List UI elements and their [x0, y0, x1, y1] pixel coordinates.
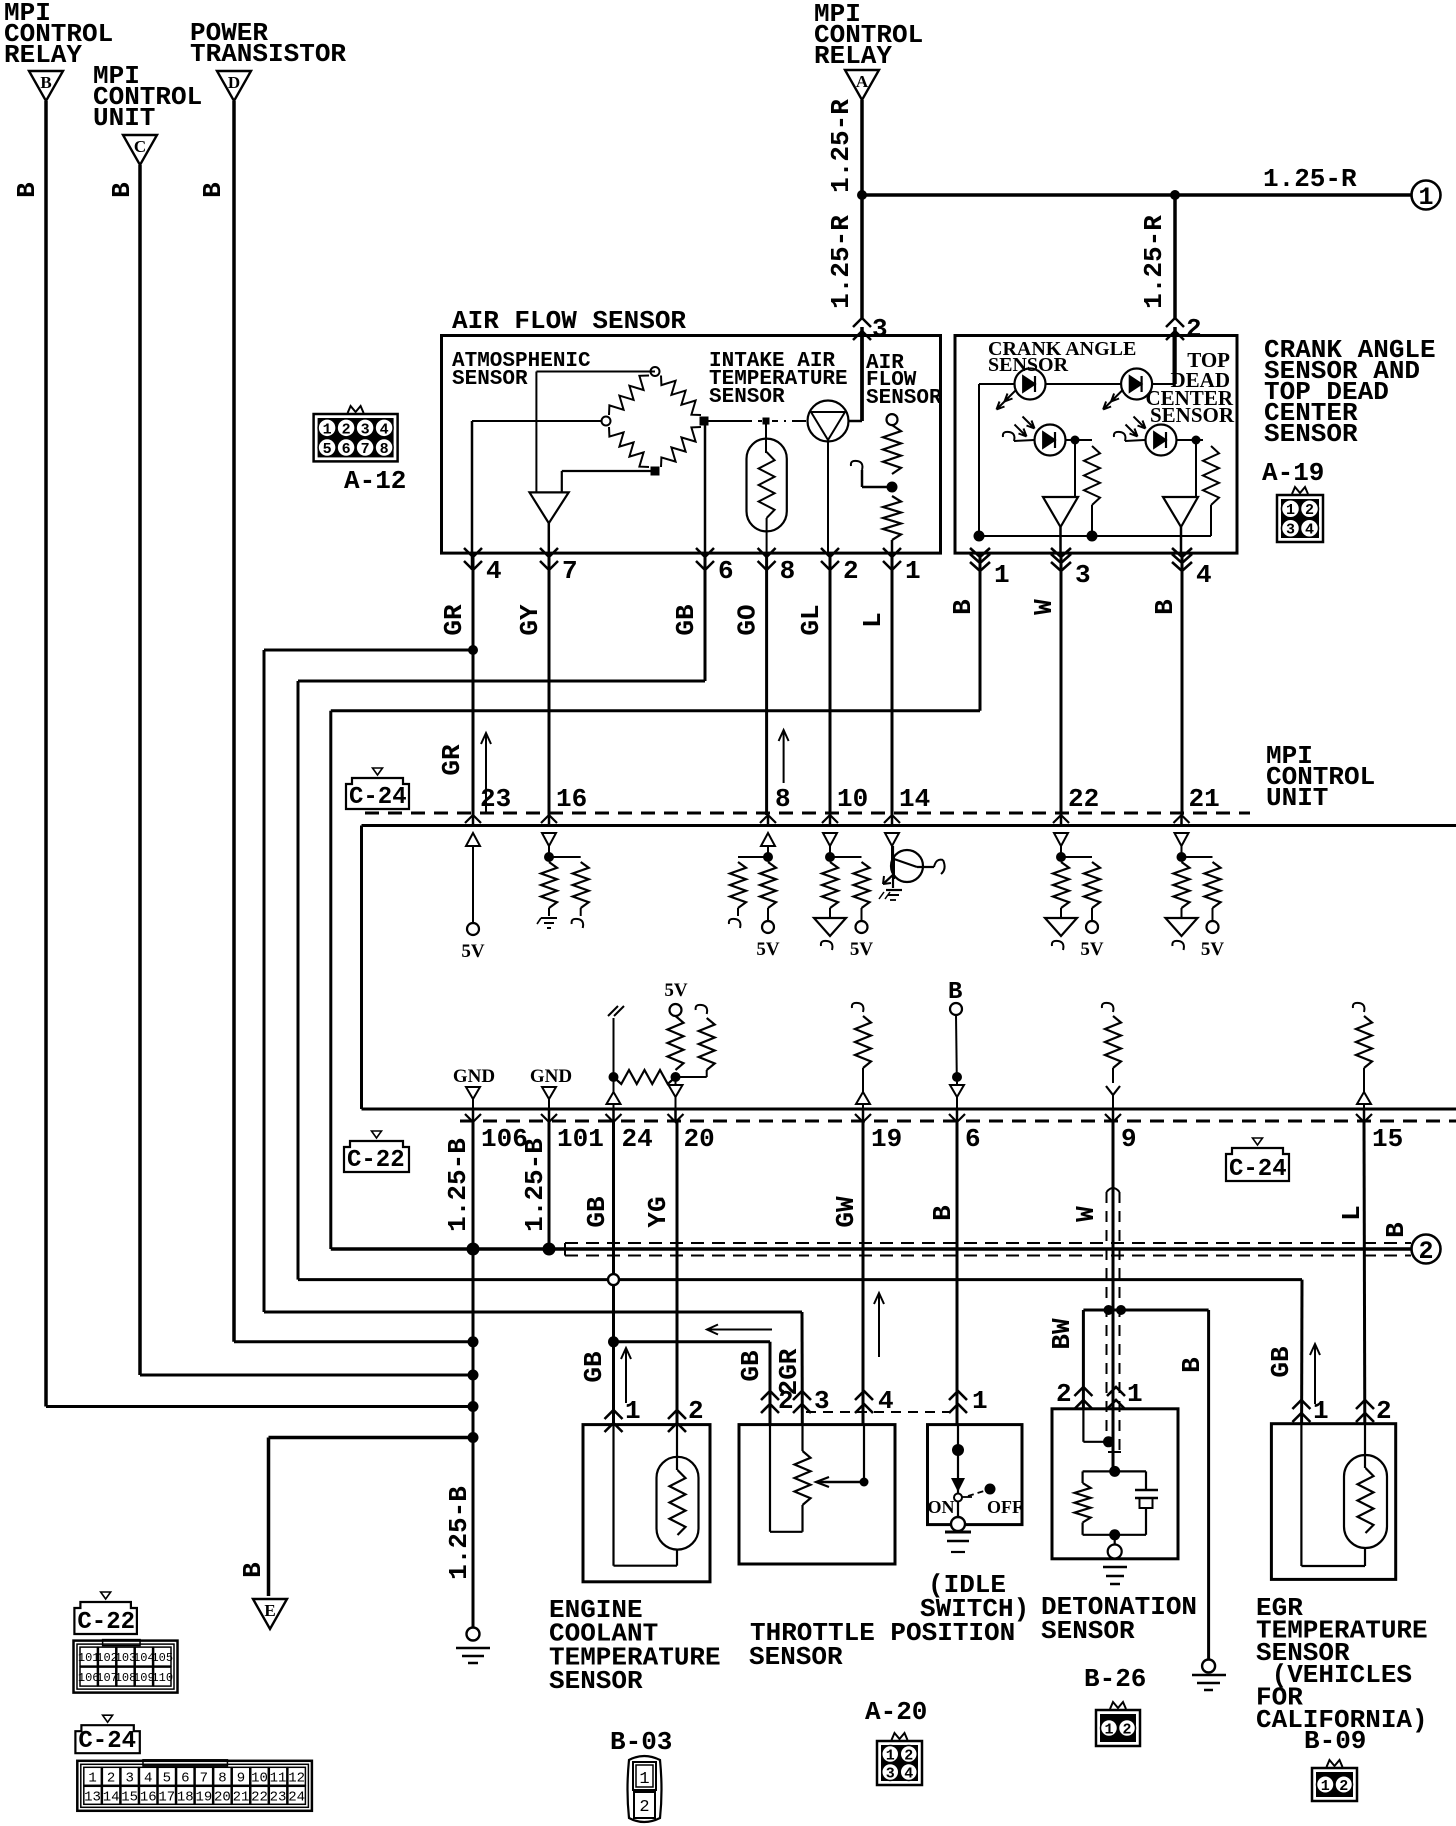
svg-text:AIR FLOW SENSOR: AIR FLOW SENSOR — [452, 306, 686, 336]
svg-text:1: 1 — [1418, 183, 1433, 212]
svg-text:21: 21 — [1189, 784, 1220, 814]
svg-text:8: 8 — [775, 784, 791, 814]
svg-text:8: 8 — [780, 556, 796, 586]
svg-text:18: 18 — [177, 1789, 194, 1805]
svg-text:6: 6 — [965, 1124, 981, 1154]
svg-text:2: 2 — [1186, 314, 1202, 344]
svg-text:ON: ON — [928, 1497, 955, 1517]
svg-text:A-12: A-12 — [344, 466, 406, 496]
svg-text:GO: GO — [732, 604, 762, 635]
svg-text:SENSOR: SENSOR — [452, 368, 528, 391]
svg-text:3: 3 — [1286, 522, 1295, 539]
svg-text:E: E — [264, 1601, 275, 1620]
svg-text:B-09: B-09 — [1304, 1726, 1366, 1756]
svg-text:2: 2 — [1305, 502, 1314, 519]
svg-text:1: 1 — [323, 421, 332, 438]
svg-text:110: 110 — [151, 1671, 173, 1685]
svg-text:5V: 5V — [1201, 939, 1225, 960]
svg-text:GB: GB — [579, 1351, 609, 1383]
svg-text:B: B — [948, 599, 978, 615]
svg-text:5V: 5V — [1080, 939, 1104, 960]
svg-text:105: 105 — [151, 1651, 173, 1665]
svg-text:101: 101 — [557, 1124, 604, 1154]
svg-text:8: 8 — [218, 1770, 226, 1786]
svg-text:GR: GR — [439, 604, 469, 636]
svg-text:3: 3 — [361, 421, 370, 438]
svg-text:4: 4 — [486, 556, 502, 586]
svg-text:GB: GB — [1266, 1346, 1296, 1378]
svg-text:1.25-B: 1.25-B — [520, 1138, 550, 1232]
svg-text:5: 5 — [163, 1770, 171, 1786]
svg-text:L: L — [1337, 1205, 1367, 1221]
svg-text:2: 2 — [778, 1386, 794, 1416]
svg-text:3: 3 — [125, 1770, 133, 1786]
svg-text:24: 24 — [622, 1124, 653, 1154]
svg-text:4: 4 — [380, 421, 389, 438]
svg-text:B: B — [238, 1562, 268, 1578]
svg-text:2: 2 — [1056, 1379, 1072, 1409]
svg-text:22: 22 — [1068, 784, 1099, 814]
svg-text:15: 15 — [1372, 1124, 1403, 1154]
svg-text:L: L — [858, 612, 888, 628]
svg-text:23: 23 — [480, 784, 511, 814]
svg-text:1.25-R: 1.25-R — [1139, 215, 1169, 309]
svg-text:B: B — [198, 182, 228, 198]
svg-text:B: B — [1381, 1222, 1411, 1238]
svg-text:1.25-B: 1.25-B — [443, 1138, 473, 1232]
svg-text:1.25-R: 1.25-R — [826, 99, 856, 193]
svg-text:1.25-R: 1.25-R — [1263, 164, 1357, 194]
svg-text:1.25-B: 1.25-B — [444, 1486, 474, 1580]
svg-text:15: 15 — [121, 1789, 138, 1805]
svg-text:2: 2 — [1339, 1778, 1348, 1795]
svg-text:GND: GND — [530, 1066, 572, 1087]
svg-text:1: 1 — [905, 556, 921, 586]
svg-text:7: 7 — [200, 1770, 208, 1786]
svg-text:19: 19 — [871, 1124, 902, 1154]
svg-text:4: 4 — [904, 1765, 913, 1782]
svg-text:7: 7 — [562, 556, 578, 586]
svg-text:SENSOR: SENSOR — [1264, 419, 1358, 449]
svg-text:20: 20 — [214, 1789, 231, 1805]
svg-text:B: B — [12, 182, 42, 198]
svg-text:GY: GY — [515, 604, 545, 636]
svg-text:B: B — [1177, 1357, 1207, 1373]
svg-text:C: C — [134, 137, 146, 156]
svg-text:GW: GW — [831, 1196, 861, 1228]
svg-text:2: 2 — [107, 1770, 115, 1786]
svg-text:RELAY: RELAY — [814, 41, 892, 71]
svg-text:14: 14 — [103, 1789, 120, 1805]
svg-text:C-24: C-24 — [78, 1728, 136, 1755]
svg-text:C-24: C-24 — [1229, 1156, 1287, 1183]
svg-text:1: 1 — [625, 1396, 641, 1426]
svg-text:3: 3 — [886, 1765, 895, 1782]
svg-text:13: 13 — [84, 1789, 101, 1805]
svg-text:2: 2 — [1418, 1237, 1433, 1266]
svg-text:C-22: C-22 — [77, 1609, 135, 1636]
svg-text:17: 17 — [158, 1789, 175, 1805]
svg-text:1: 1 — [1127, 1379, 1143, 1409]
svg-text:GND: GND — [453, 1066, 495, 1087]
svg-text:1: 1 — [1313, 1396, 1329, 1426]
svg-text:6: 6 — [342, 441, 351, 458]
svg-text:5V: 5V — [664, 980, 688, 1001]
svg-text:B: B — [928, 1205, 958, 1221]
svg-text:1: 1 — [886, 1747, 895, 1764]
svg-text:SENSOR: SENSOR — [549, 1666, 643, 1696]
svg-text:BW: BW — [1047, 1318, 1077, 1350]
svg-text:20: 20 — [684, 1124, 715, 1154]
svg-text:3: 3 — [872, 314, 888, 344]
svg-text:GR: GR — [437, 744, 467, 776]
svg-text:10: 10 — [251, 1770, 268, 1786]
svg-text:12: 12 — [288, 1770, 305, 1786]
svg-text:9: 9 — [1121, 1124, 1137, 1154]
svg-text:1: 1 — [1286, 502, 1295, 519]
svg-text:19: 19 — [195, 1789, 212, 1805]
svg-text:SENSOR: SENSOR — [1041, 1616, 1135, 1646]
svg-text:24: 24 — [288, 1789, 305, 1805]
svg-text:RELAY: RELAY — [4, 40, 82, 70]
svg-text:5V: 5V — [756, 939, 780, 960]
svg-text:2: 2 — [688, 1396, 704, 1426]
svg-text:4: 4 — [1305, 522, 1314, 539]
svg-text:1: 1 — [994, 560, 1010, 590]
svg-text:6: 6 — [181, 1770, 189, 1786]
svg-text:SENSOR: SENSOR — [988, 354, 1069, 376]
svg-text:9: 9 — [237, 1770, 245, 1786]
svg-text:5V: 5V — [850, 939, 874, 960]
svg-text:SENSOR: SENSOR — [866, 387, 942, 410]
svg-text:TRANSISTOR: TRANSISTOR — [190, 39, 346, 69]
svg-text:4: 4 — [1196, 560, 1212, 590]
svg-text:2: 2 — [1122, 1721, 1131, 1738]
svg-text:23: 23 — [270, 1789, 287, 1805]
svg-text:A: A — [856, 72, 869, 91]
svg-text:A-19: A-19 — [1262, 458, 1324, 488]
svg-text:6: 6 — [718, 556, 734, 586]
svg-text:B: B — [107, 182, 137, 198]
svg-text:W: W — [1071, 1206, 1101, 1222]
svg-text:22: 22 — [251, 1789, 268, 1805]
svg-text:B-03: B-03 — [610, 1727, 672, 1757]
svg-text:8: 8 — [380, 441, 389, 458]
svg-text:1.25-R: 1.25-R — [826, 215, 856, 309]
svg-text:5V: 5V — [461, 941, 485, 962]
svg-text:D: D — [228, 73, 240, 92]
svg-text:2: 2 — [342, 421, 351, 438]
svg-text:SWITCH): SWITCH) — [920, 1594, 1029, 1624]
svg-text:UNIT: UNIT — [1266, 783, 1328, 813]
svg-text:GB: GB — [582, 1196, 612, 1228]
svg-text:SENSOR: SENSOR — [749, 1642, 843, 1672]
svg-text:C-22: C-22 — [347, 1147, 405, 1174]
svg-text:3: 3 — [1075, 560, 1091, 590]
svg-text:B-26: B-26 — [1084, 1664, 1146, 1694]
svg-text:7: 7 — [361, 441, 370, 458]
svg-text:A-20: A-20 — [865, 1697, 927, 1727]
svg-text:1: 1 — [639, 1770, 649, 1789]
svg-text:C-24: C-24 — [349, 784, 407, 811]
svg-text:OFF: OFF — [987, 1497, 1023, 1517]
svg-text:UNIT: UNIT — [93, 103, 155, 133]
svg-text:B: B — [1150, 599, 1180, 615]
svg-text:2: 2 — [904, 1747, 913, 1764]
svg-text:1: 1 — [1104, 1721, 1113, 1738]
svg-text:SENSOR: SENSOR — [709, 386, 785, 409]
svg-text:B: B — [40, 73, 51, 92]
svg-text:10: 10 — [837, 784, 868, 814]
svg-text:2: 2 — [639, 1798, 649, 1817]
svg-text:21: 21 — [233, 1789, 250, 1805]
svg-text:SENSOR: SENSOR — [1150, 403, 1235, 427]
svg-text:16: 16 — [140, 1789, 157, 1805]
svg-text:4: 4 — [144, 1770, 152, 1786]
svg-text:16: 16 — [556, 784, 587, 814]
svg-text:2: 2 — [1376, 1396, 1392, 1426]
svg-text:W: W — [1029, 599, 1059, 615]
svg-text:GB: GB — [671, 604, 701, 636]
svg-text:GL: GL — [796, 604, 826, 635]
svg-text:YG: YG — [643, 1196, 673, 1227]
svg-text:GB: GB — [736, 1350, 766, 1382]
svg-text:5: 5 — [323, 441, 332, 458]
svg-text:1: 1 — [1321, 1778, 1330, 1795]
svg-text:1: 1 — [972, 1386, 988, 1416]
svg-text:1: 1 — [88, 1770, 96, 1786]
svg-text:11: 11 — [270, 1770, 287, 1786]
svg-text:2: 2 — [843, 556, 859, 586]
svg-text:14: 14 — [899, 784, 930, 814]
